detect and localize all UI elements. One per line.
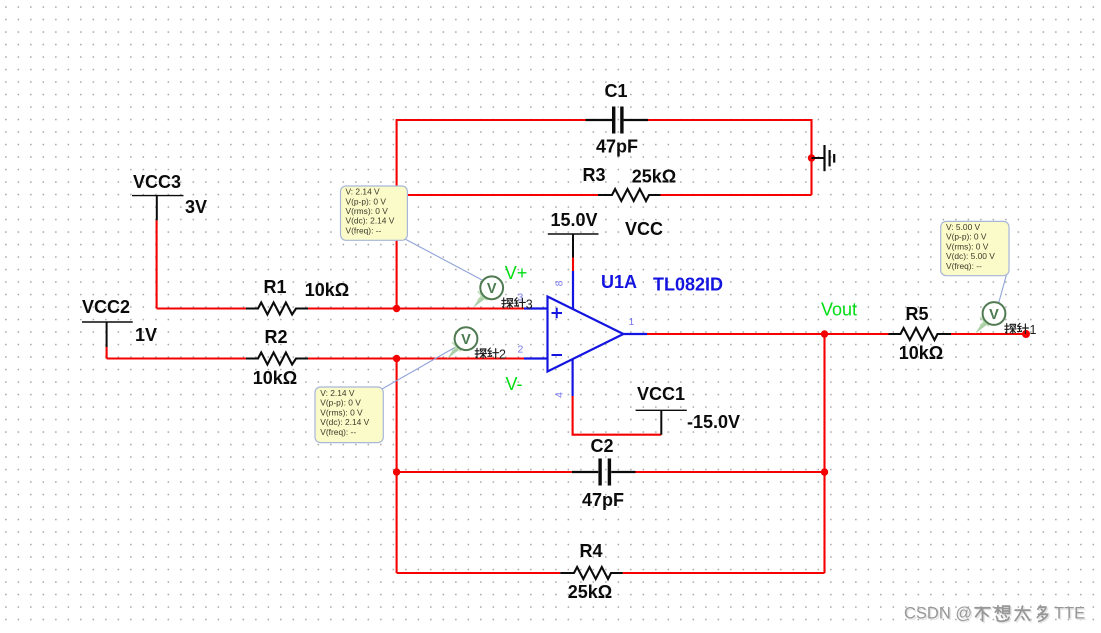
wire R3 row: [397, 194, 812, 196]
svg-text:2: 2: [518, 344, 524, 356]
svg-text:-15.0V: -15.0V: [687, 412, 740, 432]
svg-text:Vout: Vout: [821, 300, 857, 320]
svg-text:VCC2: VCC2: [82, 297, 130, 317]
resistor R3: [598, 189, 661, 201]
probe V 探针2 icon: [447, 327, 477, 359]
ground: [812, 145, 835, 171]
svg-text:VCC1: VCC1: [637, 384, 685, 404]
svg-text:8: 8: [553, 280, 565, 286]
svg-text:V(dc): 2.14 V: V(dc): 2.14 V: [346, 216, 395, 226]
probe label 探针1: [1005, 323, 1037, 337]
svg-text:R5: R5: [905, 304, 928, 324]
watermark CSDN @不想太多TTE: [904, 605, 1087, 624]
capacitor C2: [572, 459, 636, 486]
svg-text:V(dc): 5.00 V: V(dc): 5.00 V: [946, 251, 995, 261]
svg-text:R1: R1: [263, 277, 286, 297]
svg-text:1: 1: [1030, 323, 1037, 337]
svg-text:CSDN @: CSDN @: [904, 605, 972, 623]
leader line probe3 annotation: [405, 239, 483, 281]
junction node C2 left: [393, 468, 400, 475]
svg-text:V(rms): 0 V: V(rms): 0 V: [320, 407, 363, 417]
svg-text:R4: R4: [579, 541, 602, 561]
svg-text:TTE: TTE: [1054, 605, 1085, 623]
svg-text:47pF: 47pF: [596, 137, 638, 157]
minus symbol: [552, 354, 563, 356]
leader line probe1 annotation: [999, 275, 1007, 304]
svg-text:V(freq): --: V(freq): --: [346, 225, 382, 235]
pin 8 wire: [572, 271, 574, 310]
wire C2 row: [397, 471, 825, 473]
junction node R1/feedback: [393, 305, 400, 312]
svg-text:V(p-p): 0 V: V(p-p): 0 V: [946, 232, 987, 242]
wire VCC3 drop: [156, 220, 158, 308]
annotation box probe2 readings: [315, 387, 383, 443]
source VCC2: [82, 322, 133, 347]
probe V 探针1 icon: [975, 302, 1005, 334]
pin - input wire: [524, 357, 548, 359]
svg-text:V+: V+: [505, 263, 528, 283]
svg-text:25kΩ: 25kΩ: [632, 167, 676, 187]
wire R1 row: [157, 307, 524, 309]
junction node R2/bottom loop: [393, 355, 400, 362]
probe V 探针3 icon: [473, 276, 503, 308]
svg-text:V: 2.14 V: V: 2.14 V: [346, 187, 381, 197]
svg-text:C2: C2: [590, 436, 613, 456]
source VCC rail 15V: [548, 234, 599, 258]
probe label 探针3: [502, 297, 533, 311]
wire opamp vee pin4 red: [573, 396, 662, 435]
svg-text:V(dc): 2.14 V: V(dc): 2.14 V: [320, 417, 369, 427]
svg-text:V(freq): --: V(freq): --: [946, 261, 982, 271]
resistor R5: [889, 328, 952, 340]
wire VCC2 drop: [106, 347, 108, 359]
wire output row: [647, 333, 1028, 335]
wire right bottom vertical: [823, 334, 825, 573]
annotation box probe3 readings: [341, 186, 408, 240]
source VCC3: [132, 196, 184, 221]
svg-text:10kΩ: 10kΩ: [899, 343, 943, 363]
wire R4 row: [397, 572, 825, 574]
capacitor C1: [586, 107, 649, 134]
svg-text:10kΩ: 10kΩ: [253, 368, 297, 388]
pin output wire: [623, 333, 647, 335]
resistor R1: [246, 303, 308, 315]
svg-text:V(freq): --: V(freq): --: [320, 427, 356, 437]
svg-text:V(p-p): 0 V: V(p-p): 0 V: [346, 196, 387, 206]
wire opamp vcc pin8 red: [572, 258, 574, 272]
junction node Vout: [821, 330, 828, 337]
svg-text:TL082ID: TL082ID: [653, 275, 723, 295]
svg-text:VCC: VCC: [625, 219, 663, 239]
svg-text:4: 4: [553, 392, 565, 398]
wire left bottom vertical: [396, 359, 398, 574]
svg-text:R3: R3: [582, 165, 605, 185]
pin 4 wire: [571, 359, 573, 396]
probe label 探针2: [475, 348, 506, 362]
svg-text:V: 5.00 V: V: 5.00 V: [946, 222, 981, 232]
junction node C2 right: [821, 468, 828, 475]
wire R2 row: [107, 357, 524, 359]
plus symbol: [552, 308, 563, 319]
svg-text:V(p-p): 0 V: V(p-p): 0 V: [320, 398, 361, 408]
svg-text:10kΩ: 10kΩ: [305, 280, 349, 300]
resistor R2: [246, 353, 308, 365]
wire top C1 loop: [397, 119, 812, 121]
svg-text:V(rms): 0 V: V(rms): 0 V: [946, 241, 989, 251]
svg-text:1V: 1V: [135, 325, 157, 345]
svg-text:V: 2.14 V: V: 2.14 V: [320, 388, 355, 398]
wire right vertical top: [810, 119, 812, 195]
svg-text:3V: 3V: [185, 197, 207, 217]
svg-text:C1: C1: [604, 81, 627, 101]
svg-text:V(rms): 0 V: V(rms): 0 V: [346, 206, 389, 216]
source VCC1 rail -15V: [636, 410, 687, 434]
wire left vertical feedback: [396, 119, 398, 309]
svg-text:VCC3: VCC3: [133, 172, 181, 192]
annotation box probe1 readings: [941, 221, 1009, 275]
svg-text:3: 3: [526, 297, 533, 311]
junction node ground tap: [808, 154, 815, 161]
svg-text:V-: V-: [505, 374, 522, 394]
svg-text:U1A: U1A: [601, 272, 637, 292]
op-amp U1A: [524, 271, 647, 396]
node output end terminal: [1022, 330, 1030, 338]
svg-text:47pF: 47pF: [582, 490, 624, 510]
svg-text:15.0V: 15.0V: [550, 210, 597, 230]
svg-text:25kΩ: 25kΩ: [568, 582, 612, 602]
leader line probe2 annotation: [382, 347, 457, 390]
pin + input wire: [524, 307, 548, 309]
svg-text:R2: R2: [264, 327, 287, 347]
svg-text:2: 2: [499, 348, 506, 362]
svg-text:1: 1: [629, 316, 635, 328]
resistor R4: [560, 567, 622, 579]
